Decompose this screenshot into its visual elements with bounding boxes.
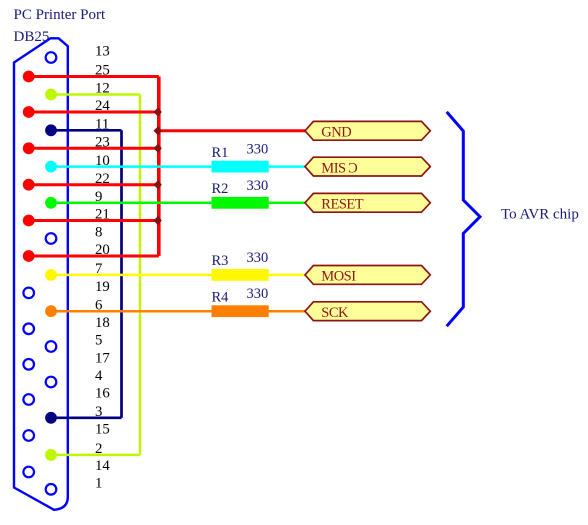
wire pin24 to red bus <box>29 111 159 114</box>
wire pin2 horizontal (yellow-green) <box>51 454 140 457</box>
connector DB25 outline <box>14 38 68 510</box>
net flag SCK <box>305 302 430 321</box>
svg-text:9: 9 <box>95 189 102 205</box>
pin 8 <box>46 233 57 244</box>
svg-text:C: C <box>348 160 358 176</box>
svg-text:14: 14 <box>95 458 110 474</box>
pin 21 <box>23 215 35 227</box>
pin 3 <box>45 412 57 424</box>
resistor R1 <box>212 161 269 173</box>
svg-text:1: 1 <box>95 476 102 492</box>
wire pin21 to red bus <box>29 219 159 222</box>
svg-text:5: 5 <box>95 333 102 349</box>
svg-text:R1: R1 <box>212 145 229 161</box>
svg-text:11: 11 <box>95 117 109 133</box>
svg-text:19: 19 <box>95 279 110 295</box>
svg-text:330: 330 <box>247 250 269 266</box>
wire pin11 horizontal (navy) <box>51 129 122 132</box>
svg-text:23: 23 <box>95 135 110 151</box>
svg-text:8: 8 <box>95 225 102 241</box>
svg-text:10: 10 <box>95 153 110 169</box>
wire navy vertical pin11-pin3 <box>120 130 123 418</box>
svg-text:3: 3 <box>95 404 102 420</box>
pin 13 <box>46 52 57 63</box>
pin 20 <box>23 250 35 262</box>
junction dot on red bus at pin23 row <box>154 144 162 153</box>
pin 14 <box>23 467 34 478</box>
pin 2 <box>45 449 57 461</box>
svg-text:15: 15 <box>95 422 110 438</box>
svg-text:21: 21 <box>95 207 110 223</box>
pin 4 <box>46 377 57 388</box>
svg-text:4: 4 <box>95 368 103 384</box>
wire yellow-green vertical pin12-pin2 <box>139 95 142 455</box>
svg-text:RESET: RESET <box>321 197 363 213</box>
svg-text:330: 330 <box>247 178 269 194</box>
svg-text:20: 20 <box>95 242 110 258</box>
pin 7 <box>45 269 57 281</box>
svg-text:R2: R2 <box>212 181 229 197</box>
wire pin3 horizontal (navy) <box>51 416 122 419</box>
svg-text:16: 16 <box>95 386 110 402</box>
svg-text:330: 330 <box>247 286 269 302</box>
pin 15 <box>23 430 34 441</box>
svg-text:MOSI: MOSI <box>321 269 356 285</box>
pin 19 <box>23 288 34 299</box>
brace to AVR chip <box>447 112 480 326</box>
junction dot on red bus at pin22 row <box>154 180 162 189</box>
pin 11 <box>45 124 57 136</box>
pin 6 <box>45 305 57 317</box>
resistor R4 <box>212 305 269 317</box>
pin 23 <box>23 142 35 154</box>
wire pin25 to red bus <box>29 75 159 78</box>
pin 10 <box>45 161 57 173</box>
svg-text:6: 6 <box>95 297 102 313</box>
wire pin12 horizontal (yellow-green) <box>51 93 140 96</box>
resistor R2 <box>212 197 269 209</box>
pin 18 <box>23 324 34 335</box>
svg-text:25: 25 <box>95 63 110 79</box>
wire pin7 to MOSI <box>51 274 307 277</box>
pin 25 <box>23 71 35 83</box>
net flag GND <box>305 121 430 140</box>
svg-text:24: 24 <box>95 98 110 114</box>
wire red bus vertical (ground bus) <box>157 77 161 257</box>
wire pin9 to RESET <box>51 202 307 205</box>
pin 22 <box>23 179 35 191</box>
svg-text:7: 7 <box>95 261 102 277</box>
net flag MOSI <box>305 266 430 285</box>
svg-text:17: 17 <box>95 351 110 367</box>
wire pin23 to red bus <box>29 147 159 150</box>
wire pin6 to SCK <box>51 310 307 313</box>
svg-text:18: 18 <box>95 315 110 331</box>
wire pin10 to MISO <box>51 165 307 168</box>
svg-text:330: 330 <box>247 142 269 158</box>
svg-text:22: 22 <box>95 171 110 187</box>
svg-text:2: 2 <box>95 441 102 457</box>
pin 24 <box>23 106 35 118</box>
svg-text:R3: R3 <box>212 253 229 269</box>
wire red bus to GND flag <box>159 129 306 132</box>
pin 1 <box>46 484 57 495</box>
svg-text:MIS: MIS <box>321 160 346 176</box>
svg-text:GND: GND <box>321 125 351 141</box>
pin 12 <box>45 89 57 101</box>
net flag MISO <box>305 157 430 176</box>
junction dot on red bus at pin21 row <box>154 216 162 225</box>
pin 17 <box>23 359 34 370</box>
svg-text:R4: R4 <box>212 289 230 305</box>
svg-text:12: 12 <box>95 81 110 97</box>
junction dot on red bus at pin24 row <box>154 107 162 116</box>
pin 9 <box>45 197 57 209</box>
pin 16 <box>23 394 34 405</box>
resistor R3 <box>212 269 269 281</box>
wire pin22 to red bus <box>29 183 159 186</box>
svg-text:13: 13 <box>95 44 110 60</box>
pin 5 <box>46 341 57 352</box>
wire pin20 to red bus <box>29 255 159 258</box>
net flag RESET <box>305 193 430 212</box>
junction dot on red bus at GND wire row <box>154 126 162 135</box>
svg-text:SCK: SCK <box>321 305 349 321</box>
svg-text:To AVR chip: To AVR chip <box>501 206 579 222</box>
svg-text:PC Printer Port: PC Printer Port <box>14 7 107 23</box>
